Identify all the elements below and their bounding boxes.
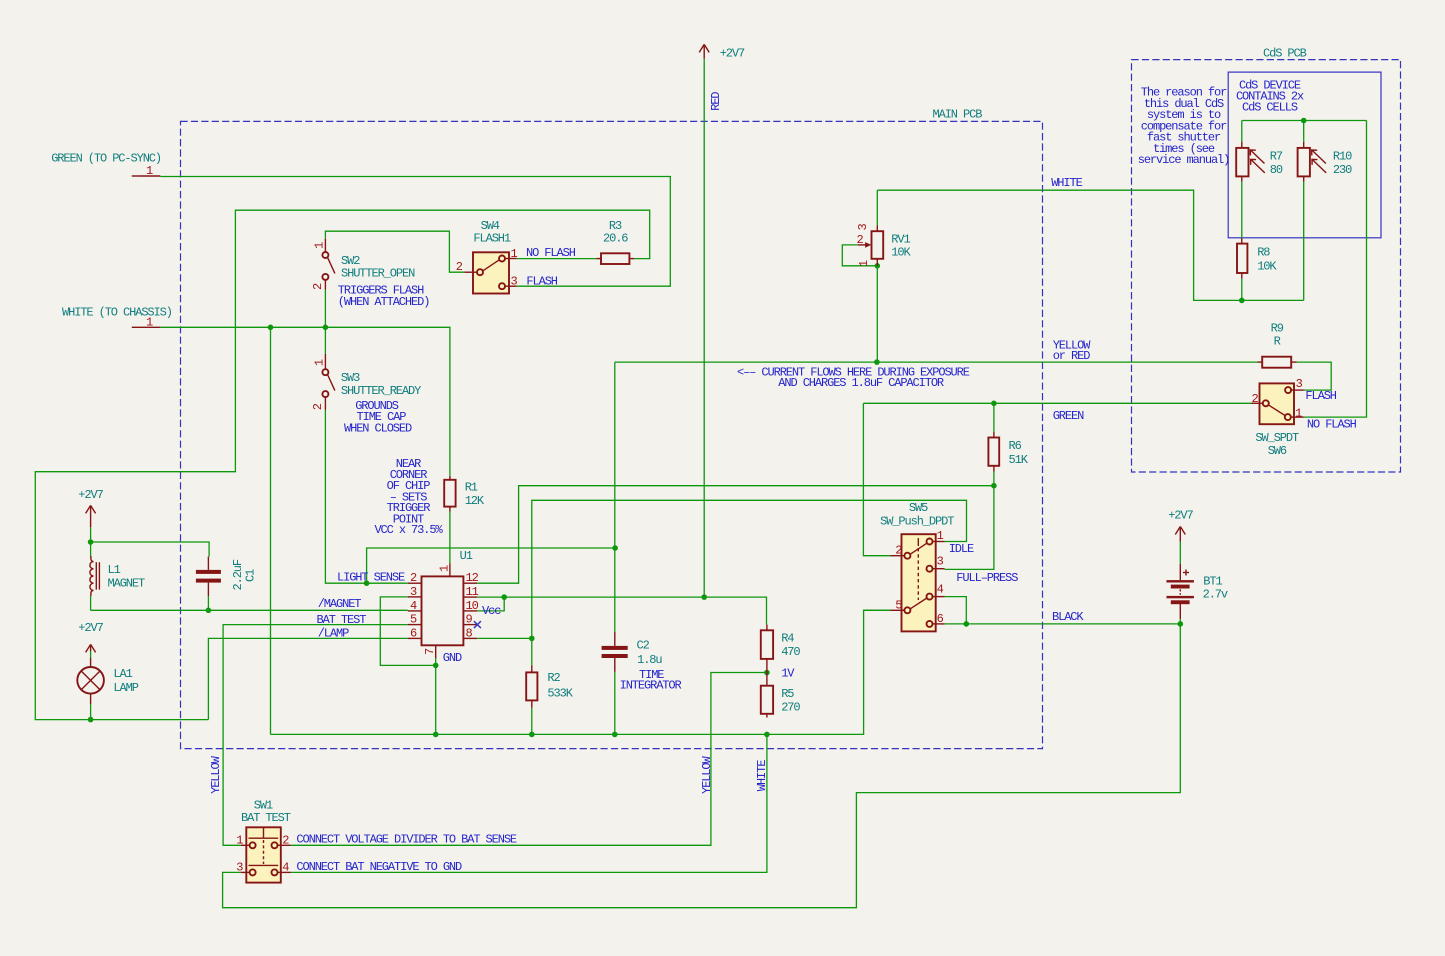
- svg-text:1: 1: [511, 247, 518, 261]
- wire R5 bottom leg to SW1 pin4: [291, 734, 767, 872]
- resistor R8: [1237, 238, 1277, 279]
- junction LA1 bottom: [88, 717, 94, 723]
- svg-text:3: 3: [937, 554, 944, 568]
- wire /MAGNET net: [91, 609, 408, 611]
- svg-text:R8: R8: [1257, 246, 1270, 260]
- svg-text:SW5: SW5: [909, 501, 928, 515]
- wire U1 pin12 net: [477, 486, 994, 584]
- svg-text:12: 12: [466, 571, 479, 585]
- svg-text:+2V7: +2V7: [720, 47, 745, 61]
- svg-text:SW_Push_DPDT: SW_Push_DPDT: [880, 514, 954, 528]
- svg-text:GREEN: GREEN: [1053, 409, 1084, 423]
- svg-text:FLASH1: FLASH1: [473, 232, 511, 246]
- svg-text:6: 6: [937, 612, 944, 626]
- svg-text:CdS PCB: CdS PCB: [1263, 47, 1307, 61]
- svg-text:CONNECT BAT NEGATIVE TO GND: CONNECT BAT NEGATIVE TO GND: [296, 860, 462, 874]
- svg-text:R2: R2: [547, 671, 560, 685]
- svg-text:R6: R6: [1009, 439, 1022, 453]
- svg-text:WHITE: WHITE: [755, 760, 769, 791]
- svg-text:LAMP: LAMP: [113, 681, 138, 695]
- switch SW4 FLASH1: [456, 219, 518, 294]
- svg-text:1: 1: [1295, 406, 1302, 420]
- svg-text:R5: R5: [781, 687, 794, 701]
- connector pin WHITE: [62, 306, 172, 330]
- svg-text:2: 2: [311, 403, 325, 410]
- svg-text:YELLOW: YELLOW: [700, 755, 714, 794]
- wire C2 bottom: [614, 672, 616, 735]
- wire R7 top: [1241, 121, 1243, 143]
- wire BAT TEST net: [223, 625, 408, 846]
- wire BLACK net: [945, 623, 1181, 625]
- svg-text:WHITE: WHITE: [1051, 176, 1082, 190]
- wire R10 bottom: [1303, 182, 1305, 301]
- svg-text:C2: C2: [637, 639, 650, 653]
- wire U1 pin11 Vcc net: [477, 597, 766, 625]
- svg-text:/MAGNET: /MAGNET: [318, 597, 362, 611]
- wire SW3 pin1: [324, 327, 326, 354]
- junction 1V node: [764, 670, 770, 676]
- svg-text:4: 4: [282, 861, 289, 875]
- wire L1 top: [90, 542, 92, 557]
- wire pin8 riser to SW5 pin1: [532, 500, 967, 638]
- wire SW2 pin1 to SW4 pin2: [325, 231, 464, 272]
- svg-text:5: 5: [895, 598, 902, 612]
- svg-text:BAT TEST: BAT TEST: [317, 613, 367, 627]
- svg-text:MAGNET: MAGNET: [108, 577, 146, 591]
- svg-text:1.8u: 1.8u: [637, 653, 662, 667]
- power +2V7 lamp: [78, 621, 103, 653]
- junction RV1 pin1/wiper: [875, 263, 881, 269]
- svg-text:R9: R9: [1271, 322, 1284, 336]
- capacitor C1: [196, 557, 258, 597]
- svg-text:L1: L1: [108, 563, 121, 577]
- svg-text:SHUTTER_READY: SHUTTER_READY: [341, 384, 421, 398]
- wire RV1 wiper loop: [842, 245, 877, 266]
- svg-text:1: 1: [857, 260, 871, 267]
- svg-text:51K: 51K: [1009, 453, 1029, 467]
- svg-text:11: 11: [466, 585, 479, 599]
- junction YELLOW-or-RED at RV1: [874, 359, 880, 365]
- svg-text:1: 1: [937, 529, 944, 543]
- svg-text:+2V7: +2V7: [78, 488, 103, 502]
- resistor R3: [596, 219, 634, 264]
- svg-text:Vcc: Vcc: [482, 604, 501, 618]
- wire R6 bottom to SW5 pin3: [945, 472, 994, 570]
- svg-text:2: 2: [282, 833, 289, 847]
- wire L1 C1 top link: [91, 527, 210, 556]
- wire LA1 top: [90, 651, 92, 658]
- resistor R1: [444, 476, 485, 512]
- wire +2V7 RED vertical: [703, 59, 705, 597]
- svg-text:GREEN (TO PC-SYNC): GREEN (TO PC-SYNC): [51, 152, 161, 166]
- svg-text:YELLOW: YELLOW: [209, 755, 223, 794]
- svg-text:1V: 1V: [781, 667, 795, 681]
- junction GND bus at pin7 leg: [433, 732, 439, 738]
- wire /LAMP net: [208, 638, 407, 719]
- CdS PCB dashed box: [1132, 60, 1401, 472]
- svg-text:LA1: LA1: [113, 667, 132, 681]
- wire GREEN pc-sync net: [160, 177, 670, 287]
- svg-text:1: 1: [438, 565, 452, 572]
- wire R2 bottom: [531, 708, 533, 735]
- svg-text:12K: 12K: [465, 494, 485, 508]
- inductor L1: [90, 556, 145, 596]
- MAIN PCB dashed box: [181, 121, 1043, 748]
- svg-text:2: 2: [857, 233, 864, 247]
- svg-text:2: 2: [311, 283, 325, 290]
- svg-text:2: 2: [1252, 392, 1259, 406]
- wire L1 bottom to /MAGNET: [90, 596, 92, 610]
- svg-text:RED: RED: [709, 92, 723, 111]
- svg-text:SW6: SW6: [1268, 444, 1287, 458]
- svg-text:8: 8: [466, 626, 473, 640]
- svg-text:2.7v: 2.7v: [1203, 588, 1228, 602]
- power +2V7 battery: [1168, 509, 1193, 542]
- svg-text:10: 10: [466, 599, 479, 613]
- svg-text:470: 470: [781, 645, 800, 659]
- svg-text:BLACK: BLACK: [1052, 610, 1084, 624]
- junction Vcc at +2V7 riser: [701, 594, 707, 600]
- wire GREEN net to SW6: [863, 402, 1251, 404]
- svg-text:+2V7: +2V7: [1168, 509, 1193, 523]
- connector pin GREEN: [51, 152, 161, 179]
- svg-text:R10: R10: [1333, 150, 1352, 164]
- svg-text:3: 3: [236, 861, 243, 875]
- svg-text:R7: R7: [1270, 150, 1283, 164]
- svg-text:CdS CELLS: CdS CELLS: [1242, 100, 1298, 114]
- wire BT1 bottom: [1179, 619, 1181, 624]
- svg-text:WHITE (TO CHASSIS): WHITE (TO CHASSIS): [62, 306, 172, 320]
- svg-text:4: 4: [937, 582, 944, 596]
- battery BT1: [1167, 564, 1228, 619]
- wire R3 right loop to LA1 bottom: [35, 210, 649, 719]
- svg-text:(WHEN ATTACHED): (WHEN ATTACHED): [338, 295, 430, 309]
- svg-text:FLASH: FLASH: [526, 275, 557, 289]
- svg-text:3: 3: [1296, 377, 1303, 391]
- svg-text:or RED: or RED: [1053, 349, 1091, 363]
- wire RV1 pin1 down: [876, 266, 878, 362]
- wire R10 top: [1303, 121, 1305, 143]
- svg-text:VCC x 73.5%: VCC x 73.5%: [374, 523, 443, 537]
- junction GND bus at R5: [764, 732, 770, 738]
- svg-text:2: 2: [456, 260, 463, 274]
- junction BLACK at SW5 pin4: [964, 621, 970, 627]
- no-connect X at U1 pin9: [474, 621, 481, 628]
- wire left leg down to bus: [270, 327, 272, 734]
- resistor R6: [988, 432, 1028, 472]
- wire CdS top bus: [1242, 120, 1367, 122]
- wire LA1 bottom: [90, 704, 92, 720]
- svg-text:BAT TEST: BAT TEST: [241, 811, 291, 825]
- svg-text:10K: 10K: [891, 245, 911, 259]
- junction LIGHT SENSE at C2 riser: [612, 545, 618, 551]
- svg-text:C1: C1: [244, 569, 258, 582]
- wire C2 riser: [614, 362, 616, 632]
- svg-text:SHUTTER_OPEN: SHUTTER_OPEN: [341, 267, 415, 281]
- svg-text:FLASH: FLASH: [1305, 389, 1336, 403]
- svg-text:R4: R4: [781, 632, 794, 646]
- lamp LA1: [77, 658, 138, 704]
- svg-text:GND: GND: [443, 651, 462, 665]
- wire LIGHT SENSE riser: [367, 548, 615, 583]
- power +2V7 top left: [78, 488, 103, 527]
- switch SW6 SPDT: [1251, 377, 1304, 458]
- svg-text:1: 1: [313, 242, 327, 249]
- svg-text:3: 3: [856, 224, 870, 231]
- wire SW1 pin2 to 1V: [291, 673, 767, 846]
- wire RV1 pin3 up: [876, 190, 878, 225]
- switch SW3: [311, 354, 421, 411]
- wire SW5 pin4 jog: [945, 597, 967, 624]
- svg-text:270: 270: [781, 701, 800, 715]
- wire WHITE chassis net: [160, 327, 450, 476]
- switch SW1 BAT TEST: [236, 798, 291, 882]
- capacitor C2 TIME INTEGRATOR: [602, 632, 682, 693]
- wire SW5 pin5 stub run: [864, 609, 891, 611]
- junction GREEN net at R6 top: [991, 401, 997, 407]
- wire U1 pin3 to GND: [380, 597, 435, 666]
- svg-text:SW1: SW1: [254, 798, 273, 812]
- junction WHITE at R8: [1239, 298, 1245, 304]
- junction R6 bottom net: [991, 483, 997, 489]
- IC U1: [408, 549, 501, 665]
- wire R6 top: [993, 403, 995, 432]
- svg-text:R: R: [1274, 335, 1281, 349]
- svg-text:RV1: RV1: [891, 232, 910, 246]
- svg-text:10K: 10K: [1257, 259, 1277, 273]
- svg-text:+2V7: +2V7: [78, 621, 103, 635]
- resistor R9: [1258, 322, 1297, 368]
- junction GND bus at C2: [612, 732, 618, 738]
- wire U1 pin8 net: [477, 637, 532, 639]
- junction WHITE net at SW2/SW3: [323, 325, 329, 331]
- svg-text:service manual): service manual): [1138, 153, 1230, 167]
- svg-text:NO FLASH: NO FLASH: [526, 246, 576, 260]
- wire R1 bottom to U1 pin1: [449, 512, 451, 564]
- wire SW4 pin1 to R3 left: [517, 258, 597, 260]
- junction CdS top at R10: [1301, 118, 1307, 124]
- wire R7 to R8: [1241, 182, 1243, 239]
- junction GND at U1 pin7: [433, 663, 439, 669]
- wire SW2 pin2 down: [324, 290, 326, 328]
- junction WHITE net at left leg: [268, 325, 274, 331]
- svg-text:5: 5: [410, 613, 417, 627]
- svg-text:BT1: BT1: [1203, 574, 1222, 588]
- note: reason for dual CdS: [1138, 86, 1230, 167]
- svg-text:4: 4: [410, 599, 417, 613]
- switch SW2: [311, 239, 415, 290]
- svg-text:6: 6: [410, 626, 417, 640]
- wire U1 pin10 jog: [477, 597, 504, 611]
- svg-text:FULL–PRESS: FULL–PRESS: [956, 571, 1018, 585]
- junction +2V7 L1/C1: [88, 539, 94, 545]
- svg-text:/LAMP: /LAMP: [318, 627, 349, 641]
- svg-text:20.6: 20.6: [603, 232, 628, 246]
- resistor R7 photoresistor: [1236, 142, 1283, 182]
- svg-text:U1: U1: [460, 549, 473, 563]
- svg-text:2: 2: [895, 544, 902, 558]
- svg-text:80: 80: [1270, 163, 1283, 177]
- junction BLACK at BT1: [1178, 621, 1184, 627]
- resistor R2: [526, 666, 574, 708]
- junction /MAGNET at C1: [206, 608, 212, 614]
- svg-text:3: 3: [511, 275, 518, 289]
- wire BT1 top: [1179, 542, 1181, 564]
- svg-text:230: 230: [1333, 163, 1352, 177]
- wire WHITE to CdS: [877, 190, 1303, 300]
- svg-text:AND CHARGES 1.8uF CAPACITOR: AND CHARGES 1.8uF CAPACITOR: [778, 376, 944, 390]
- wire R8 bottom: [1241, 279, 1243, 301]
- wire SW3 pin2 to U1 pin2: [325, 410, 407, 583]
- svg-text:CONNECT VOLTAGE DIVIDER TO BAT: CONNECT VOLTAGE DIVIDER TO BAT SENSE: [296, 832, 517, 846]
- CdS DEVICE blue box: [1228, 72, 1381, 238]
- resistor R5: [761, 673, 801, 718]
- wire YELLOW or RED net: [615, 361, 1258, 363]
- CdS DEVICE note text: [1236, 79, 1304, 115]
- wire gnd bus: [271, 610, 891, 734]
- svg-text:LIGHT SENSE: LIGHT SENSE: [337, 571, 405, 585]
- svg-text:SW_SPDT: SW_SPDT: [1255, 431, 1299, 445]
- svg-text:7: 7: [423, 648, 437, 655]
- wire C1 bottom: [207, 596, 209, 610]
- svg-text:WHEN CLOSED: WHEN CLOSED: [344, 422, 412, 436]
- wire NO FLASH leg: [1304, 121, 1367, 418]
- junction U1 pin8/R2: [529, 636, 535, 642]
- wire SW5 pin2 riser: [863, 403, 890, 555]
- svg-text:9: 9: [466, 613, 473, 627]
- junction GND bus at R2: [529, 732, 535, 738]
- resistor R10 photoresistor: [1298, 142, 1353, 182]
- svg-text:R1: R1: [465, 480, 478, 494]
- resistor R4: [761, 625, 801, 673]
- switch SW5 push DPDT: [880, 501, 954, 632]
- svg-text:INTEGRATOR: INTEGRATOR: [620, 679, 682, 693]
- potentiometer RV1: [856, 224, 912, 268]
- svg-text:533K: 533K: [547, 687, 573, 701]
- junction Vcc at U1 pin10: [501, 594, 507, 600]
- svg-text:1: 1: [146, 164, 153, 178]
- wire BLACK return to SW1 pin3: [223, 624, 1181, 908]
- svg-text:MAIN PCB: MAIN PCB: [933, 108, 983, 122]
- note near corner of chip: [374, 457, 443, 537]
- wire R2 top: [531, 638, 533, 665]
- svg-text:NO FLASH: NO FLASH: [1307, 417, 1357, 431]
- svg-text:1: 1: [236, 833, 243, 847]
- power +2V7 red top: [699, 44, 745, 60]
- svg-text:1: 1: [313, 359, 327, 366]
- svg-text:3: 3: [410, 585, 417, 599]
- wire U1 pin7 down: [435, 658, 437, 734]
- svg-text:IDLE: IDLE: [949, 542, 974, 556]
- svg-text:2: 2: [410, 571, 417, 585]
- wire R9 right to SW6 pin3: [1297, 362, 1332, 390]
- junction LIGHT SENSE at U1 pin2: [364, 580, 370, 586]
